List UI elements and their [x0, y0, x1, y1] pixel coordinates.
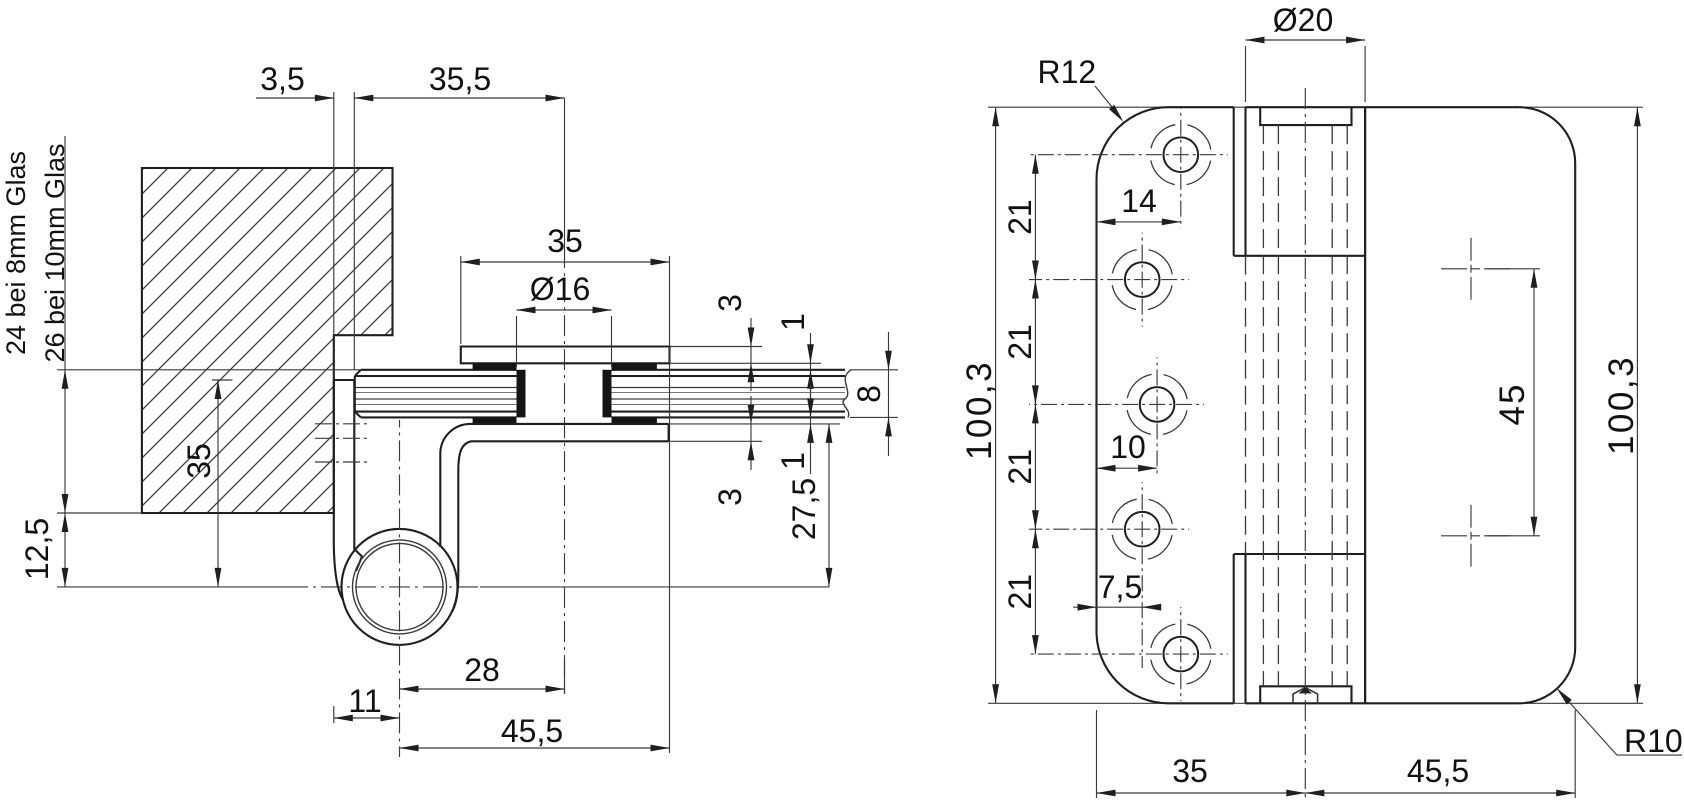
svg-text:21: 21 [1002, 199, 1038, 235]
svg-text:35,5: 35,5 [429, 61, 491, 97]
svg-text:7,5: 7,5 [1098, 569, 1142, 605]
svg-text:3,5: 3,5 [260, 61, 304, 97]
svg-text:1: 1 [775, 452, 811, 470]
svg-text:45: 45 [1493, 383, 1532, 426]
svg-text:3: 3 [712, 488, 748, 506]
svg-text:45,5: 45,5 [501, 713, 563, 749]
svg-text:45,5: 45,5 [1407, 753, 1469, 789]
svg-text:35: 35 [547, 223, 583, 259]
svg-text:3: 3 [712, 294, 748, 312]
svg-text:21: 21 [1002, 449, 1038, 485]
svg-text:21: 21 [1002, 324, 1038, 360]
svg-text:R12: R12 [1038, 54, 1097, 90]
svg-text:28: 28 [464, 652, 500, 688]
svg-text:100,3: 100,3 [960, 360, 999, 460]
svg-text:Ø16: Ø16 [530, 271, 590, 307]
svg-text:35: 35 [1172, 753, 1208, 789]
svg-text:8: 8 [851, 385, 887, 403]
svg-text:100,3: 100,3 [1602, 355, 1641, 455]
svg-text:26 bei 10mm Glas: 26 bei 10mm Glas [40, 143, 70, 362]
svg-text:R10: R10 [1624, 723, 1683, 759]
svg-text:1: 1 [775, 313, 811, 331]
svg-text:27,5: 27,5 [786, 478, 822, 540]
svg-text:24 bei 8mm Glas: 24 bei 8mm Glas [1, 151, 31, 355]
svg-text:11: 11 [348, 683, 381, 719]
svg-text:12,5: 12,5 [19, 518, 55, 580]
svg-text:Ø20: Ø20 [1273, 2, 1333, 38]
svg-text:10: 10 [1110, 429, 1146, 465]
svg-text:35: 35 [181, 443, 217, 479]
svg-text:21: 21 [1002, 574, 1038, 610]
svg-text:14: 14 [1121, 183, 1157, 219]
